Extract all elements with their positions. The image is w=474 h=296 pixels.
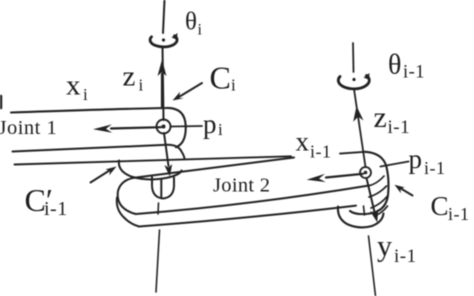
label theta_i-1 <box>388 50 425 83</box>
left margin tick <box>0 96 2 108</box>
svg-text:i-1: i-1 <box>44 198 68 220</box>
C_i-1 pointer arrowhead <box>395 185 405 193</box>
origin p_i-1 dot <box>364 171 368 175</box>
svg-text:x: x <box>66 70 81 102</box>
y_i-1 arrowhead <box>370 209 378 223</box>
label C_i <box>210 60 237 96</box>
svg-text:y: y <box>377 230 392 263</box>
joint2 cylinder bottom arc <box>338 207 384 228</box>
origin p_i-1 circle <box>360 167 371 178</box>
rotation arrow theta_i ellipse <box>150 36 177 47</box>
link2 mid edge <box>136 186 369 215</box>
pin front edge <box>160 180 162 197</box>
p_i-1 leader line <box>381 162 409 167</box>
svg-text:i-1: i-1 <box>448 204 470 224</box>
hatch 2 on joint2 side <box>369 186 387 197</box>
label x_i-1 <box>296 127 332 162</box>
C'_i-1 pointer arrowhead <box>105 167 116 176</box>
label C'_i-1 <box>25 182 68 220</box>
link1 top edge <box>11 108 186 147</box>
svg-text:x: x <box>296 127 310 157</box>
z_i axis arrow shaft <box>161 74 163 107</box>
link2 far top edge <box>134 158 294 178</box>
x_i-1 axis arrow shaft <box>326 174 363 178</box>
svg-text:Joint 1: Joint 1 <box>0 117 57 139</box>
link2 left endcap top face <box>118 178 136 214</box>
hatch 3 on joint2 side <box>371 196 388 208</box>
joint axis i mid segment <box>163 47 164 120</box>
joint1 pin U <box>152 177 174 199</box>
svg-text:θ: θ <box>185 9 197 36</box>
hatch 1 on joint2 side <box>368 176 384 186</box>
hatch 4 on joint2 side <box>376 206 388 216</box>
svg-text:i: i <box>231 76 236 95</box>
axis i-1 dash in cylinder <box>364 206 365 215</box>
svg-text:i-1: i-1 <box>403 63 425 83</box>
svg-text:p: p <box>203 109 217 139</box>
x_i axis arrow shaft <box>111 127 161 128</box>
z_i arrowhead <box>158 60 167 77</box>
label z_i-1 <box>374 101 411 138</box>
label Joint 1 <box>0 117 57 139</box>
label z_i <box>123 61 144 95</box>
origin p_i dot <box>162 125 166 129</box>
rotation arrow theta_i-1 ellipse <box>338 76 369 89</box>
joint axis i upper segment <box>163 0 165 33</box>
svg-text:C: C <box>210 60 231 96</box>
svg-text:z: z <box>374 101 387 134</box>
label Joint 2 <box>213 175 270 197</box>
svg-text:i-1: i-1 <box>394 246 417 267</box>
svg-text:i: i <box>139 76 144 95</box>
axis i lower line <box>156 230 160 292</box>
C_i pointer arrow <box>178 83 202 98</box>
x_i-1 arrowhead <box>307 174 326 182</box>
axis i-1 lower line <box>369 236 376 296</box>
label y_i-1 <box>377 230 417 268</box>
svg-text:θ: θ <box>388 50 401 81</box>
joint1 cylinder bottom arc <box>119 161 182 180</box>
z_i-1 arrowhead <box>353 106 363 122</box>
joint axis i-1 mid segment <box>354 89 366 167</box>
svg-text:i-1: i-1 <box>310 142 332 162</box>
svg-text:i: i <box>198 22 203 39</box>
svg-text:i-1: i-1 <box>424 158 446 178</box>
y_i axis down shaft <box>164 133 169 166</box>
y_i down arrowhead <box>164 164 172 176</box>
y_i-1 down shaft <box>367 178 375 212</box>
link2 far edge right segment <box>340 152 365 154</box>
rotation arrowhead i <box>172 33 178 40</box>
label theta_i <box>185 9 203 39</box>
link2 bottom edge <box>139 206 356 227</box>
joint axis i-1 upper segment <box>352 43 355 72</box>
svg-text:z: z <box>123 61 136 93</box>
C_i-1 pointer arrow <box>400 188 413 196</box>
C_i pointer arrowhead <box>173 92 184 101</box>
svg-text:Joint 2: Joint 2 <box>213 175 270 197</box>
svg-text:i: i <box>83 85 88 104</box>
link2 right end outline <box>350 152 389 214</box>
C'_i-1 pointer arrow <box>91 170 112 183</box>
link1 mid edge <box>13 145 185 159</box>
origin p_i circle <box>157 120 171 134</box>
label p_i-1 <box>409 144 446 178</box>
axis dot i <box>162 38 165 41</box>
rotation arrowhead i-1 <box>364 73 370 80</box>
svg-text:i-1: i-1 <box>388 117 411 138</box>
svg-text:C: C <box>431 191 449 221</box>
label x_i <box>66 70 88 105</box>
label p_i <box>203 109 223 139</box>
x_i arrowhead <box>93 124 112 132</box>
axis i dash below pin <box>157 203 160 214</box>
p_i leader line <box>171 125 202 128</box>
svg-text:i: i <box>218 120 223 139</box>
link2 left endcap thickness <box>117 198 139 227</box>
link1 bottom long line <box>15 156 292 164</box>
svg-text:p: p <box>409 144 423 174</box>
axis dot i-1 <box>352 78 355 81</box>
label C_i-1 <box>431 191 470 224</box>
